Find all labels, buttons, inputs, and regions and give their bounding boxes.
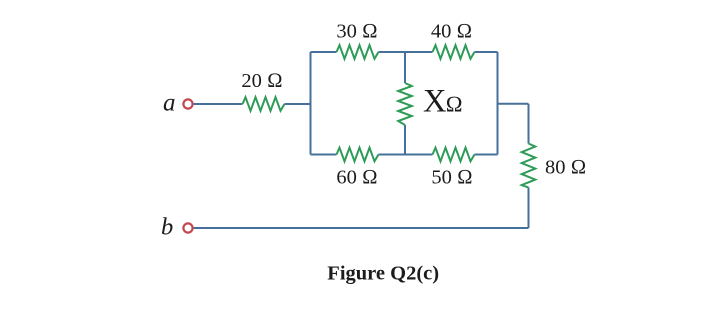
- resistor R40 (40 ohm): [433, 45, 475, 59]
- svg-text:Ω: Ω: [446, 92, 463, 117]
- wire bottom-right segment: [475, 154, 498, 156]
- svg-text:50 Ω: 50 Ω: [431, 167, 472, 189]
- terminal a: [183, 99, 192, 108]
- wire right vertical: [497, 52, 499, 155]
- wire a to R20: [194, 103, 243, 105]
- wire bottom to terminal b: [194, 227, 529, 229]
- resistor R60 (60 ohm): [337, 148, 379, 162]
- resistor R50 (50 ohm): [433, 148, 475, 162]
- wire R20 to node left: [285, 103, 311, 105]
- wire top-left segment: [311, 51, 337, 53]
- svg-text:80 Ω: 80 Ω: [545, 157, 586, 179]
- wire stub to 80 ohm branch: [498, 103, 529, 105]
- svg-text:X: X: [423, 84, 446, 120]
- svg-text:30 Ω: 30 Ω: [336, 20, 377, 42]
- wire top-middle segment: [379, 51, 433, 53]
- svg-text:Figure Q2(c): Figure Q2(c): [327, 263, 439, 285]
- wire middle vertical lower: [404, 125, 406, 155]
- wire bottom-middle segment: [379, 154, 433, 156]
- svg-text:60 Ω: 60 Ω: [336, 167, 377, 189]
- svg-text:a: a: [163, 90, 176, 117]
- wire bottom-left segment: [311, 154, 337, 156]
- wire top-right segment: [475, 51, 498, 53]
- resistor R20 (20 ohm): [243, 97, 285, 111]
- terminal b: [183, 223, 192, 232]
- wire middle vertical upper: [404, 52, 406, 83]
- resistor R30 (30 ohm): [337, 45, 379, 59]
- wire 80 ohm branch upper: [528, 104, 530, 144]
- wire 80 ohm branch lower: [528, 188, 530, 229]
- resistor R80 (80 ohm): [522, 144, 536, 188]
- svg-text:20 Ω: 20 Ω: [241, 70, 282, 92]
- svg-text:40 Ω: 40 Ω: [431, 20, 472, 42]
- svg-text:b: b: [161, 214, 173, 241]
- wire left vertical: [310, 52, 312, 155]
- resistor RX (X ohm): [398, 83, 412, 125]
